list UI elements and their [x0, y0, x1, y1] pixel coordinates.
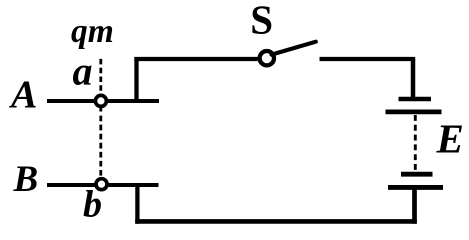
wire top right segment	[320, 57, 416, 61]
switch S blade	[272, 42, 316, 55]
wire A (horizontal lead from A)	[47, 99, 159, 103]
svg-text:a: a	[73, 49, 93, 94]
svg-text:B: B	[13, 159, 39, 200]
node b	[96, 179, 107, 190]
svg-text:qm: qm	[71, 13, 114, 50]
dashed line battery middle	[414, 115, 417, 170]
wire bottom	[135, 219, 417, 224]
dashed line qm lower segment (node a to node b)	[99, 116, 102, 176]
svg-text:E: E	[436, 116, 464, 162]
battery cell 1 long plate	[386, 110, 442, 115]
wire riser right-top to battery	[411, 59, 416, 98]
node a	[95, 95, 106, 106]
wire top left segment	[134, 57, 257, 61]
battery cell 2 long plate	[388, 185, 443, 190]
battery cell 2 short plate	[401, 172, 433, 177]
wire riser right-bottom from battery	[412, 187, 417, 223]
wire riser left-bottom	[135, 185, 139, 224]
battery cell 1 short plate	[399, 97, 432, 102]
switch S pivot	[260, 51, 274, 65]
svg-text:A: A	[8, 72, 37, 116]
dashed line qm stub below node a	[99, 108, 102, 112]
dashed line qm upper segment (above node a)	[99, 59, 102, 91]
svg-text:S: S	[250, 0, 273, 43]
wire B (horizontal lead from B)	[47, 183, 159, 187]
wire riser left-top	[134, 57, 138, 101]
